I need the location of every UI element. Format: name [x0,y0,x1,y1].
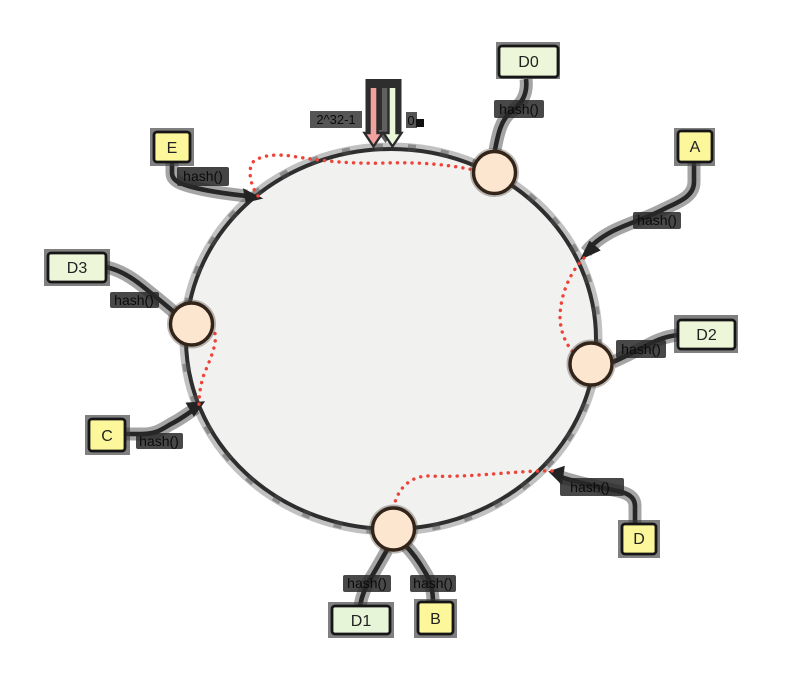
wire D1-N4 [360,550,387,606]
svg-text:hash(): hash() [139,433,179,449]
box C [85,415,130,455]
box D3 [44,249,110,286]
svg-text:A: A [690,139,701,156]
wire D-ring [551,468,635,524]
svg-text:2^32-1: 2^32-1 [316,112,355,127]
label hash() E [177,167,229,186]
svg-text:hash(): hash() [499,101,539,117]
svg-text:hash(): hash() [114,292,154,308]
svg-text:hash(): hash() [570,479,610,495]
label hash() D1 [343,575,391,592]
label hash() B [410,575,456,592]
wire C-ring [125,403,202,434]
arrows top cap [366,79,402,88]
label hash() D3 [110,292,159,308]
svg-text:hash(): hash() [183,168,223,184]
svg-text:E: E [167,140,178,157]
svg-text:D0: D0 [518,54,539,71]
svg-text:D2: D2 [696,327,717,344]
svg-text:B: B [430,611,441,628]
arrow red 2^32-1 [365,82,383,147]
node N3 [570,343,612,385]
node N1 [474,152,516,194]
svg-text:hash(): hash() [347,575,387,591]
svg-text:hash(): hash() [413,575,453,591]
wire D3-N2 [106,267,175,313]
dotted path C-to-N2 [199,327,215,405]
dotted path A-to-N3 [560,258,584,358]
label hash() D2 [616,340,666,358]
arrow gray middle [376,88,395,143]
dotted path E-to-N1 [250,155,474,196]
box E [150,128,194,166]
wire D2-N3 [613,335,678,362]
box D1 [328,602,394,638]
svg-text:D3: D3 [67,260,88,277]
box A [674,128,715,166]
label hash() A [633,212,681,229]
svg-text:C: C [101,428,113,445]
label 2^32-1 [310,111,362,128]
svg-text:D: D [633,531,645,548]
dotted path D-to-N4 [394,471,552,506]
wire B-N4 [405,545,433,602]
svg-text:0: 0 [407,113,414,128]
wire E-ring [172,162,259,201]
arrows dark back block [366,79,402,132]
box B [414,599,457,638]
label hash() C [136,433,183,449]
label hash() D0 [494,100,544,118]
box D0 [496,42,560,79]
label hash() D [560,478,624,496]
node N4 [373,508,415,550]
arrow green 0 [384,82,402,147]
svg-text:D1: D1 [351,613,372,630]
label 0 [406,112,424,128]
svg-text:hash(): hash() [637,212,677,228]
wire D0-N1 [495,79,526,150]
box D [618,520,660,558]
svg-text:hash(): hash() [621,341,661,357]
ring [184,147,598,531]
box D2 [674,315,738,353]
wire A-ring [583,162,694,257]
node N2 [171,303,213,345]
